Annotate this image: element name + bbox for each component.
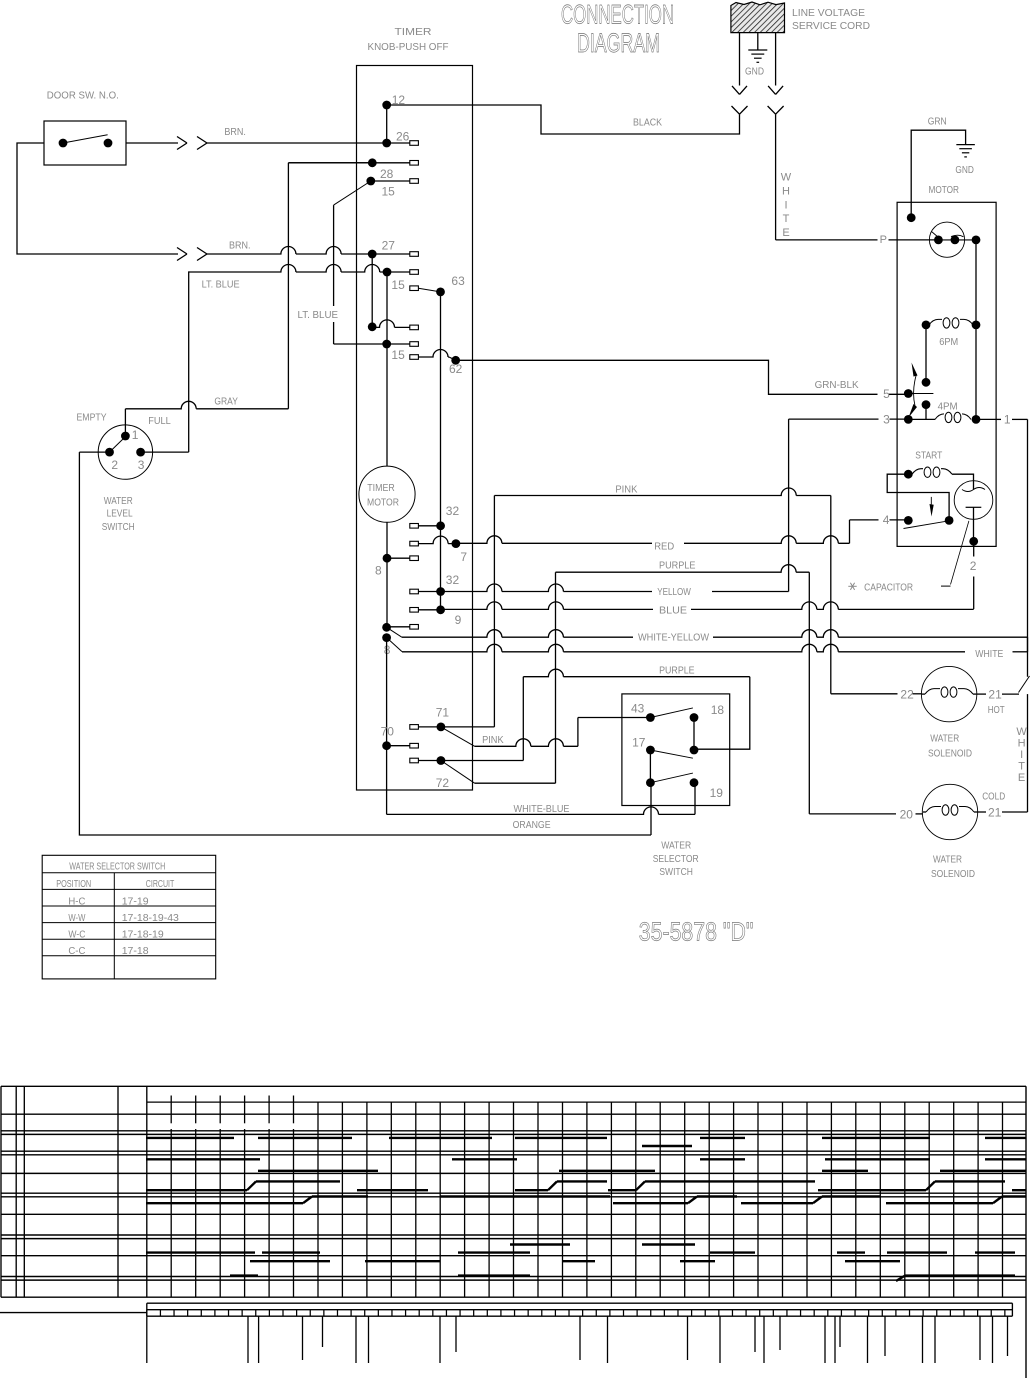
wire node 12 to 26 [386,105,388,143]
svg-text:W-W: W-W [68,912,85,924]
svg-text:1: 1 [1004,413,1011,427]
node at 327 with hump over vertical [368,322,377,331]
WLS contact 3 [136,448,145,457]
coil 6PM [922,321,931,330]
timer node 8 pair upper [382,623,391,632]
riser lt-blue vertical [188,271,190,452]
receiving chevron black [732,106,740,114]
service cord white lead arrow [775,33,777,86]
svg-text:YELLOW: YELLOW [657,586,691,598]
wire from door switch left down to lower BRN [17,143,178,254]
svg-text:32: 32 [446,573,460,587]
svg-text:15: 15 [391,278,405,292]
svg-text:POSITION: POSITION [56,878,91,890]
svg-text:SOLENOID: SOLENOID [931,868,975,880]
svg-text:2: 2 [970,559,977,573]
table water selector switch circuits [42,855,216,979]
svg-text:PURPLE: PURPLE [659,559,696,571]
terminal to node 63 [410,286,419,291]
wire WHITE right edge down to COLD 21 [1027,694,1029,812]
svg-text:PURPLE: PURPLE [659,664,695,676]
wire BLACK: timer 12 to service cord [387,105,740,134]
wire WLS 3 to riser [141,451,189,453]
chart grid top line [147,1101,1026,1103]
right edge vertical wire (white side) [1027,419,1029,676]
svg-text:H: H [782,185,790,197]
motor right vertical bus [975,240,977,420]
svg-text:SWITCH: SWITCH [659,866,693,878]
svg-text:ORANGE: ORANGE [513,819,551,831]
svg-text:71: 71 [436,705,450,719]
svg-text:HOT: HOT [988,704,1005,716]
wire BLUE: node 9 to capacitor 2 [441,602,653,609]
capacitor leader line and label [951,521,969,585]
service cord black lead arrow [739,33,741,86]
timer node 32 lower (yellow) [436,587,445,596]
start winding left loop wire [887,474,949,520]
svg-text:26: 26 [396,130,410,144]
svg-text:CONNECTION: CONNECTION [561,0,674,29]
svg-text:17-18-19: 17-18-19 [122,929,164,941]
svg-text:GND: GND [955,164,974,176]
wire GRAY: timer to water level switch [288,162,372,164]
svg-text:PINK: PINK [615,484,637,496]
svg-text:C-C: C-C [68,945,85,957]
terminal to node 62 [410,355,419,360]
ground GND motor [956,144,975,146]
svg-text:WATER: WATER [933,854,962,866]
timer motor circle [386,272,388,466]
wire 21 HOT with connector [976,693,986,695]
wire GRN-BLK: 62 to motor 5 [456,360,878,394]
svg-text:15: 15 [391,348,405,362]
svg-text:17: 17 [632,735,646,749]
svg-text:P: P [880,234,887,246]
svg-text:BLUE: BLUE [659,604,687,616]
svg-text:4: 4 [883,513,890,527]
timer node 8 pair lower [382,633,391,642]
svg-text:TIMER: TIMER [367,482,395,494]
water solenoid HOT [921,666,976,721]
timer node at 344 (lt.blue2) [382,340,391,349]
timer node 32 upper [436,521,445,530]
centrifugal switch arm [925,325,927,382]
svg-text:7: 7 [460,550,467,564]
chart grid verticals [170,1096,172,1124]
timer node 7 with hump [410,541,419,546]
timer node 27 [368,250,377,259]
receiving chevron white [768,106,776,114]
svg-text:I: I [784,199,787,211]
ground GND of service cord [757,33,759,50]
water solenoid COLD [922,784,977,839]
wire ORANGE: WLS 2 down and right to selector 17b [79,451,109,453]
svg-text:W-C: W-C [68,929,85,941]
svg-text:20: 20 [900,808,914,822]
WLS contact 1 [121,432,130,441]
svg-text:COLD: COLD [982,790,1005,802]
svg-text:W: W [1016,726,1027,738]
svg-text:63: 63 [451,274,465,288]
svg-text:LEVEL: LEVEL [107,507,133,519]
selector contact 17 [646,746,655,755]
capacitor circle [954,481,993,520]
chart left column verticals [0,1086,2,1297]
svg-text:6PM: 6PM [939,336,958,348]
wire BRN. lower: to timer 27 [177,248,187,255]
selector contact 18 [690,713,699,722]
timer node at terminal row 2 (gray wire) [368,158,377,167]
svg-text:17-19: 17-19 [122,895,149,907]
water level switch [98,425,152,479]
wire lt. blue 2: node 28 diagonal down [334,181,371,205]
svg-text:LT. BLUE: LT. BLUE [202,278,240,290]
chart bottom tick strip [0,1312,147,1314]
svg-text:LINE VOLTAGE: LINE VOLTAGE [792,7,865,19]
timer node 72 [437,756,446,765]
svg-text:WATER: WATER [661,839,691,851]
svg-text:21: 21 [988,806,1002,820]
svg-text:GRN: GRN [928,115,947,127]
svg-text:I: I [1020,749,1023,761]
wire YELLOW: node 32L to motor 3 [441,584,652,592]
wire PINK lower: node 71 to selector 43 [441,727,475,746]
svg-text:62: 62 [449,362,463,376]
svg-text:MOTOR: MOTOR [929,184,960,196]
svg-text:5: 5 [883,387,890,401]
svg-text:DOOR SW. N.O.: DOOR SW. N.O. [47,89,119,101]
svg-text:35-5878 "D": 35-5878 "D" [639,917,754,947]
svg-text:27: 27 [382,239,396,253]
svg-text:3: 3 [883,413,890,427]
svg-text:22: 22 [900,688,914,702]
svg-text:CAPACITOR: CAPACITOR [864,582,913,594]
wire RED to motor 4 [850,519,879,521]
svg-text:RED: RED [654,540,674,552]
wire WHITE neutral run [402,644,965,651]
svg-text:9: 9 [455,613,462,627]
timer node 12 [382,101,391,110]
wire WHITE: service cord to motor P [775,114,777,240]
svg-text:T: T [783,213,790,225]
svg-text:12: 12 [392,93,406,107]
svg-text:WATER: WATER [104,495,133,507]
svg-text:GRN-BLK: GRN-BLK [815,379,859,391]
chart drop lines [146,1316,148,1363]
selector contact 19 [690,778,699,787]
svg-text:H: H [1018,738,1026,750]
svg-text:18: 18 [711,703,725,717]
svg-text:WATER SELECTOR SWITCH: WATER SELECTOR SWITCH [69,860,165,872]
capacitor node 2 [969,537,978,546]
svg-text:BLACK: BLACK [633,117,662,129]
timer node 9 (blue) [436,605,445,614]
svg-text:17-18: 17-18 [122,945,149,957]
wire WHITE-YELLOW [402,630,633,637]
svg-text:WHITE-YELLOW: WHITE-YELLOW [638,632,709,644]
svg-text:GND: GND [745,66,764,78]
timer node 26 [382,139,391,148]
svg-text:SOLENOID: SOLENOID [928,747,972,759]
selector contact 43 [646,713,655,722]
svg-text:H-C: H-C [68,895,85,907]
svg-text:28: 28 [380,167,394,181]
svg-text:2: 2 [111,458,118,472]
svg-text:LT. BLUE: LT. BLUE [298,309,339,321]
timer node 28 [366,177,375,186]
svg-text:4PM: 4PM [938,400,958,412]
svg-text:EMPTY: EMPTY [77,411,107,423]
selector contact 17 lower [646,778,655,787]
svg-text:43: 43 [631,701,645,715]
timer node 8 [383,554,392,563]
timer node 70 [382,741,391,750]
svg-text:DIAGRAM: DIAGRAM [577,28,660,58]
svg-text:70: 70 [381,725,395,739]
svg-text:FULL: FULL [148,415,171,427]
timer node 62 [451,356,460,365]
chart cam traces [146,1137,234,1139]
svg-text:E: E [782,227,789,239]
water selector switch box [622,694,730,806]
svg-text:BRN.: BRN. [224,126,246,138]
svg-text:T: T [1018,761,1025,773]
svg-text:WHITE: WHITE [975,648,1003,660]
svg-text:SELECTOR: SELECTOR [653,853,699,865]
svg-text:3: 3 [138,458,145,472]
svg-text:17-18-19-43: 17-18-19-43 [122,912,179,924]
svg-text:SERVICE CORD: SERVICE CORD [792,20,870,32]
motor contact 4PM upper [922,400,931,409]
motor contact circle at P [929,222,964,257]
wire BRN. upper: door switch to timer 26 [126,142,178,144]
WLS contact 2 [105,448,114,457]
svg-text:W: W [781,172,792,184]
svg-text:8: 8 [375,564,382,578]
svg-text:BRN.: BRN. [229,240,251,252]
svg-text:15: 15 [382,185,396,199]
vertical from 27 down [371,254,373,327]
timer node 63 [436,288,445,297]
vertical wire 63 to 32/9 nodes [440,292,442,610]
svg-text:MOTOR: MOTOR [367,497,399,509]
svg-text:1: 1 [132,428,139,442]
svg-text:WHITE-BLUE: WHITE-BLUE [514,803,570,815]
timer node 71 [437,723,446,732]
wire LT. BLUE 1 from water level switch riser [189,265,387,272]
svg-text:CIRCUIT: CIRCUIT [146,878,175,890]
svg-text:START: START [915,450,942,462]
svg-text:72: 72 [436,776,450,790]
svg-text:PINK: PINK [482,734,504,746]
svg-text:KNOB-PUSH OFF: KNOB-PUSH OFF [368,41,449,53]
svg-text:E: E [1018,772,1025,784]
timing chart frame [1,1085,1026,1087]
selector contact 18 lower [690,746,699,755]
svg-text:GRAY: GRAY [214,396,238,408]
wire 1 from motor to right edge [976,418,996,420]
svg-text:SWITCH: SWITCH [102,521,135,533]
svg-text:TIMER: TIMER [395,26,432,38]
svg-text:WATER: WATER [930,733,959,745]
chart right border [1025,1086,1027,1378]
wire RED: node 7 to motor 4 [456,536,652,543]
wire WHITE-BLUE: node 70 to selector 19 [386,746,388,815]
svg-text:19: 19 [710,786,724,800]
wire PINK upper: node 71 riser to solenoid HOT 22 [493,496,495,727]
svg-text:21: 21 [988,688,1002,702]
svg-text:32: 32 [446,504,460,518]
